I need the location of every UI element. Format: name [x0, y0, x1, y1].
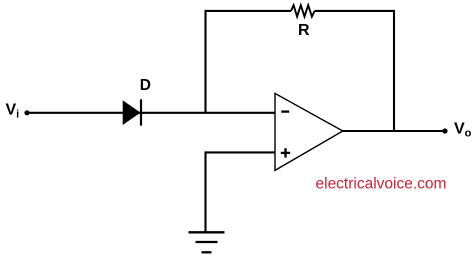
svg-text:D: D	[140, 77, 151, 94]
svg-text:Vi: Vi	[6, 101, 20, 120]
svg-text:R: R	[298, 22, 310, 39]
svg-text:electricalvoice.com: electricalvoice.com	[316, 175, 447, 192]
svg-text:Vo: Vo	[454, 120, 472, 139]
